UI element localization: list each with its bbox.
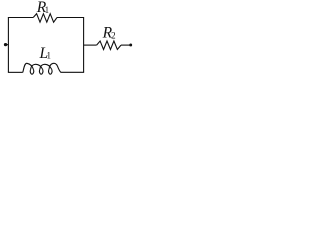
svg-text:R2: R2: [102, 25, 116, 42]
svg-text:L1: L1: [39, 45, 52, 62]
svg-text:R1: R1: [36, 0, 49, 16]
